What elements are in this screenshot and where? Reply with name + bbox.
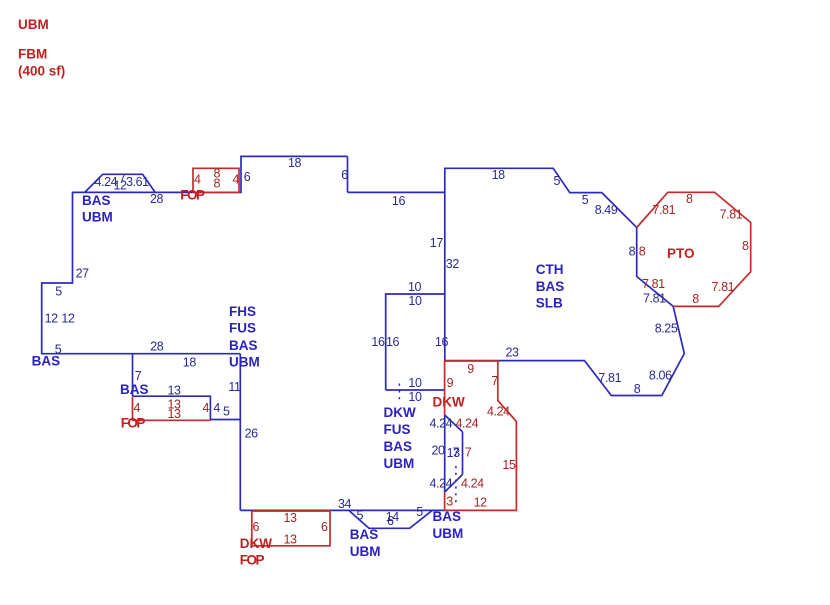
svg-text:7.81: 7.81: [652, 203, 675, 217]
svg-text:4: 4: [233, 172, 240, 186]
svg-text:BAS: BAS: [120, 382, 149, 397]
interior rect left and top (16,10): [386, 294, 445, 390]
svg-text:5: 5: [55, 343, 62, 357]
svg-text:4: 4: [203, 401, 210, 415]
svg-text:7: 7: [135, 369, 142, 383]
svg-text:UBM: UBM: [433, 526, 464, 541]
svg-text:7.81: 7.81: [642, 277, 665, 291]
svg-text:16: 16: [435, 335, 449, 349]
wall vertical x=240.3 (11,26): [239, 354, 241, 511]
svg-text:5: 5: [55, 284, 62, 298]
svg-text:28: 28: [150, 339, 164, 353]
svg-text:17: 17: [430, 236, 444, 250]
svg-text:9: 9: [447, 376, 454, 390]
svg-text:13: 13: [168, 407, 182, 421]
svg-text:3: 3: [446, 495, 453, 509]
wall top-left horizontal y=192: [73, 191, 242, 193]
svg-text:6: 6: [387, 514, 394, 528]
svg-text:34: 34: [338, 497, 352, 511]
svg-text:8: 8: [214, 177, 221, 191]
dotted opening x=456.5: [455, 466, 457, 503]
svg-text:12: 12: [61, 312, 75, 326]
svg-text:6: 6: [321, 520, 328, 534]
wall step down x=347.5 (6): [347, 156, 349, 192]
stair bay diagonal upper (4.24): [445, 415, 463, 432]
svg-text:BAS: BAS: [229, 338, 258, 353]
svg-text:3.61: 3.61: [126, 175, 149, 189]
svg-text:FBM: FBM: [18, 47, 47, 62]
svg-text:15: 15: [502, 458, 516, 472]
stair bay left vertical: [444, 415, 446, 492]
dotted opening x=399: [398, 384, 400, 404]
svg-text:32: 32: [446, 257, 460, 271]
svg-text:6: 6: [253, 520, 260, 534]
svg-text:4.24: 4.24: [430, 416, 453, 430]
svg-text:7.81: 7.81: [720, 208, 743, 222]
wall step up x=241 (6): [240, 156, 242, 193]
svg-text:8.25: 8.25: [655, 322, 678, 336]
svg-text:4.24: 4.24: [461, 476, 484, 490]
svg-text:BAS: BAS: [384, 439, 413, 454]
svg-text:10: 10: [408, 376, 422, 390]
svg-text:8: 8: [634, 382, 641, 396]
svg-text:8: 8: [692, 292, 699, 306]
svg-text:4: 4: [134, 401, 141, 415]
svg-text:8.49: 8.49: [595, 203, 618, 217]
wall top horizontal (18): [240, 155, 347, 157]
red PTO octagon: [637, 192, 751, 306]
svg-text:7: 7: [465, 446, 472, 460]
long middle vertical (17,32): [444, 168, 446, 360]
svg-text:11: 11: [228, 380, 241, 394]
trapezoid bay top-left (4.24,7,3.61,12): [85, 174, 156, 192]
wall top-right outline (18,5,5,8.49,8,7.81,8.25,8.06,8,7.81,23): [444, 168, 684, 395]
svg-text:5: 5: [357, 509, 364, 523]
svg-text:13: 13: [284, 532, 298, 546]
svg-text:7.81: 7.81: [712, 280, 735, 294]
svg-text:6: 6: [244, 170, 251, 184]
svg-text:13: 13: [284, 511, 298, 525]
red FOP porch rect top: [193, 168, 239, 192]
svg-text:12: 12: [474, 495, 488, 509]
svg-text:BAS: BAS: [350, 527, 379, 542]
wall bottom horizontal (34): [240, 509, 444, 511]
stair bay vertical (13/7): [462, 432, 464, 475]
svg-text:18: 18: [183, 355, 197, 369]
svg-text:5: 5: [582, 193, 589, 207]
svg-text:FOP: FOP: [180, 187, 205, 202]
svg-text:7.81: 7.81: [643, 291, 666, 305]
svg-text:SLB: SLB: [536, 295, 563, 310]
red FOP porch left-bottom (4,13): [133, 397, 211, 421]
svg-text:10: 10: [408, 294, 422, 308]
svg-text:10: 10: [408, 390, 422, 404]
svg-text:BAS: BAS: [536, 279, 565, 294]
svg-text:6: 6: [341, 168, 348, 182]
svg-text:28: 28: [150, 192, 164, 206]
wall left column (27,5,12,5,28,18): [42, 192, 241, 354]
svg-text:(400 sf): (400 sf): [18, 64, 65, 79]
svg-text:UBM: UBM: [384, 456, 415, 471]
svg-text:BAS: BAS: [433, 509, 462, 524]
svg-text:FHS: FHS: [229, 304, 256, 319]
svg-text:FUS: FUS: [384, 422, 411, 437]
svg-text:16: 16: [392, 194, 406, 208]
svg-text:UBM: UBM: [350, 544, 381, 559]
svg-text:FUS: FUS: [229, 320, 256, 335]
svg-text:8: 8: [686, 192, 693, 206]
svg-text:DKW: DKW: [240, 536, 272, 551]
wall BAS step (13,4,5): [133, 396, 241, 419]
interior rect bottom (10): [386, 389, 445, 391]
svg-text:8: 8: [639, 245, 646, 259]
svg-text:18: 18: [288, 156, 302, 170]
svg-text:CTH: CTH: [536, 262, 564, 277]
wall interior vertical (7): [132, 354, 134, 397]
svg-text:PTO: PTO: [667, 246, 695, 261]
svg-text:BAS: BAS: [82, 193, 111, 208]
svg-text:FOP: FOP: [121, 416, 146, 431]
svg-text:12: 12: [45, 312, 59, 326]
red DKW FOP bottom rect (13,6,13,6): [252, 511, 330, 546]
svg-text:4.24: 4.24: [456, 416, 479, 430]
svg-text:5: 5: [416, 505, 423, 519]
svg-text:DKW: DKW: [384, 405, 416, 420]
trapezoid bay bottom (5,14,6,5): [348, 510, 433, 528]
svg-text:26: 26: [245, 426, 259, 440]
svg-text:13: 13: [168, 383, 182, 397]
svg-text:9: 9: [467, 362, 474, 376]
svg-text:27: 27: [76, 266, 90, 280]
svg-text:7: 7: [453, 445, 460, 459]
svg-text:16: 16: [386, 335, 400, 349]
svg-text:DKW: DKW: [433, 395, 465, 410]
svg-text:UBM: UBM: [82, 210, 113, 225]
svg-text:8.06: 8.06: [649, 368, 672, 382]
svg-text:4: 4: [194, 172, 201, 186]
svg-text:4.24: 4.24: [487, 405, 510, 419]
svg-text:7.81: 7.81: [598, 371, 621, 385]
svg-text:UBM: UBM: [229, 354, 260, 369]
svg-text:16: 16: [371, 335, 385, 349]
svg-text:10: 10: [408, 280, 422, 294]
svg-text:FOP: FOP: [240, 553, 265, 568]
svg-text:8: 8: [742, 239, 749, 253]
svg-text:23: 23: [506, 346, 520, 360]
stair bay diagonal lower (4.24): [445, 475, 463, 493]
svg-text:4: 4: [213, 401, 220, 415]
svg-text:5: 5: [223, 405, 230, 419]
wall horizontal (16): [348, 191, 445, 193]
svg-text:5: 5: [554, 174, 561, 188]
svg-text:20: 20: [432, 443, 446, 457]
svg-text:18: 18: [492, 168, 506, 182]
svg-text:7: 7: [491, 374, 498, 388]
svg-text:4.24: 4.24: [430, 476, 453, 490]
red DKW region (9,9,7,4.24,15,12,3): [445, 361, 517, 510]
svg-text:UBM: UBM: [18, 17, 49, 32]
svg-text:8: 8: [629, 245, 636, 259]
